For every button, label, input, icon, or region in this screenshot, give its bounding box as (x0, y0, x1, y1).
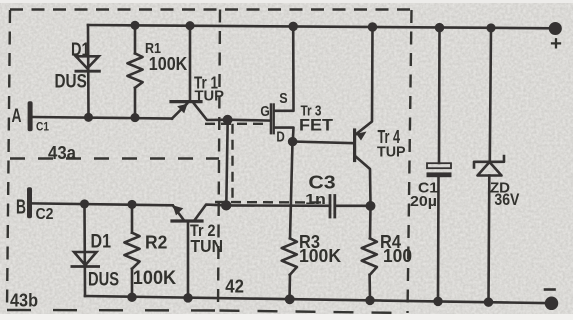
svg-text:C2: C2 (36, 206, 54, 223)
svg-text:43a: 43a (48, 143, 77, 163)
svg-text:FET: FET (299, 117, 333, 135)
svg-text:R2: R2 (145, 231, 167, 252)
svg-text:TUP: TUP (195, 87, 225, 104)
svg-text:100K: 100K (149, 53, 188, 74)
svg-text:C1: C1 (36, 120, 49, 134)
svg-text:20µ: 20µ (410, 193, 437, 210)
svg-text:36V: 36V (494, 191, 519, 209)
svg-text:100: 100 (383, 246, 412, 266)
svg-text:+: + (550, 33, 562, 55)
svg-text:TUP: TUP (377, 143, 406, 160)
svg-text:100K: 100K (133, 268, 177, 289)
svg-text:100K: 100K (299, 246, 341, 266)
svg-text:S: S (279, 91, 287, 107)
svg-text:G: G (260, 104, 269, 120)
svg-text:D1: D1 (71, 39, 90, 59)
svg-text:42: 42 (225, 275, 244, 296)
svg-text:A: A (12, 106, 22, 127)
svg-text:43b: 43b (10, 291, 38, 311)
svg-text:DUS: DUS (88, 269, 119, 291)
svg-text:D1: D1 (91, 230, 112, 252)
svg-text:D: D (276, 130, 284, 146)
svg-text:C3: C3 (308, 173, 335, 193)
svg-text:1n: 1n (305, 191, 326, 208)
svg-text:DUS: DUS (55, 71, 87, 92)
svg-text:B: B (16, 197, 26, 219)
svg-text:TUN: TUN (191, 236, 224, 256)
